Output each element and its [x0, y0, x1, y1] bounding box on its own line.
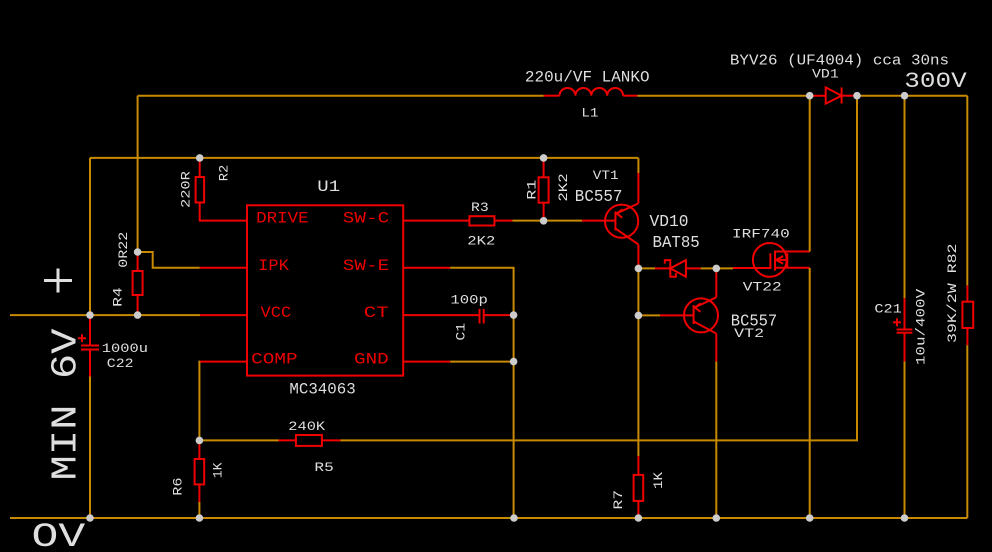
- svg-text:10u/400V: 10u/400V: [914, 289, 929, 365]
- wire gate node to VT22 gate: [716, 267, 733, 269]
- wire feedback line to x=857 vertical: [340, 96, 857, 441]
- node R1 top on 6V line: [540, 154, 548, 162]
- node R4 bottom on VCC line: [134, 311, 142, 319]
- transistor VT1 BC557: [582, 173, 638, 268]
- diode VD10 BAT85: [655, 260, 701, 277]
- wire VT1 base node to base lead: [544, 220, 582, 222]
- wire top rail middle segment: [638, 95, 810, 97]
- svg-text:SW-C: SW-C: [343, 210, 389, 228]
- svg-text:2K2: 2K2: [467, 234, 495, 249]
- svg-text:1000u: 1000u: [102, 341, 148, 356]
- wire VT2 base lead orange: [638, 314, 660, 316]
- svg-text:VT22: VT22: [743, 280, 782, 295]
- resistor R6: [195, 440, 205, 502]
- node R4 top / IPK: [134, 248, 142, 256]
- resistor R5: [279, 435, 341, 446]
- svg-text:BAT85: BAT85: [653, 234, 700, 253]
- wire feedback line y=440.4: [199, 439, 278, 441]
- wire top rail right segment: [857, 95, 967, 97]
- capacitor C1 with CT pin stub: [403, 309, 513, 324]
- capacitor C22: [78, 315, 99, 376]
- resistor R3 with SW-C pin stub: [403, 216, 512, 225]
- wire VT2 collector down to 0V rail: [715, 362, 717, 518]
- node ground vertical on 0V rail: [510, 514, 518, 522]
- svg-text:SW-E: SW-E: [343, 257, 389, 275]
- node R6 bottom on 0V rail: [196, 514, 204, 522]
- pin SW-E stub: [403, 267, 450, 269]
- svg-text:2K2: 2K2: [556, 173, 571, 201]
- node R5/R6/COMP: [196, 437, 204, 445]
- wire C21 top to rail: [904, 96, 906, 298]
- wire R82 bottom to 0V rail corner: [966, 345, 968, 518]
- svg-text:MIN 6V: MIN 6V: [46, 328, 87, 480]
- svg-text:MC34063: MC34063: [289, 381, 355, 399]
- svg-text:VD10: VD10: [650, 213, 689, 232]
- node C1 right on ground vertical: [510, 311, 518, 319]
- svg-text:U1: U1: [317, 178, 340, 196]
- node VT1 collector / VD10 anode: [635, 265, 643, 273]
- svg-text:IRF740: IRF740: [732, 227, 790, 242]
- node VT2 collector on 0V rail: [713, 514, 721, 522]
- node C21 top on top rail: [901, 92, 909, 100]
- svg-text:VT1: VT1: [593, 168, 619, 183]
- wire GND net to ground vertical: [450, 361, 513, 363]
- node C22 bottom on 0V rail: [86, 514, 94, 522]
- svg-text:100p: 100p: [450, 293, 488, 308]
- wire R82 top to rail corner: [966, 96, 968, 286]
- svg-text:BC557: BC557: [575, 188, 623, 207]
- svg-text:0R22: 0R22: [116, 232, 131, 268]
- wire VT1 collector to VT2 base node: [637, 268, 639, 315]
- svg-text:GND: GND: [354, 351, 389, 369]
- pin VCC stub: [200, 314, 247, 316]
- wire SW-E net to ground vertical: [450, 268, 513, 518]
- svg-text:BYV26 (UF4004) cca 30ns: BYV26 (UF4004) cca 30ns: [730, 53, 949, 70]
- node GND pin on ground vertical: [510, 358, 518, 366]
- wire VD10 cathode to gate node: [701, 267, 717, 269]
- wire COMP net vertical: [198, 362, 201, 441]
- svg-text:R7: R7: [611, 490, 626, 510]
- svg-text:R1: R1: [524, 179, 539, 199]
- wire vertical x=137.6 from top rail to IPK node: [137, 96, 139, 252]
- svg-text:R3: R3: [471, 200, 489, 215]
- wire 6V supply line y=157.9: [90, 157, 638, 159]
- wire VT22 source down to 0V rail: [809, 268, 811, 518]
- svg-text:220u/VF LANKO: 220u/VF LANKO: [525, 69, 650, 87]
- svg-text:220R: 220R: [178, 171, 193, 208]
- wire VCC line y=315.1 from left terminal: [10, 314, 200, 316]
- capacitor C21: [893, 298, 912, 361]
- node C21 bottom on 0V rail: [901, 514, 909, 522]
- node C22 top on VCC line: [86, 311, 94, 319]
- wire R6 bottom to 0V rail: [198, 502, 200, 518]
- resistor R1: [539, 158, 549, 221]
- svg-text:C22: C22: [107, 356, 134, 371]
- resistor R2: [196, 158, 247, 221]
- wire vertical x=90 (6V line to VCC line): [89, 158, 91, 315]
- svg-text:1K: 1K: [651, 472, 666, 489]
- node VT2 base: [635, 312, 643, 320]
- wire SW-C net to VT1 base node: [512, 220, 543, 222]
- svg-text:C21: C21: [874, 302, 902, 317]
- inductor L1: [544, 88, 638, 96]
- svg-text:R5: R5: [314, 460, 333, 475]
- svg-text:240K: 240K: [288, 419, 325, 434]
- svg-text:COMP: COMP: [251, 351, 298, 369]
- pin GND stub: [403, 361, 450, 363]
- pin COMP stub: [200, 361, 247, 363]
- label + terminal: [44, 269, 72, 293]
- wire top rail left segment (300V primary, y=95.7): [138, 95, 544, 97]
- svg-text:R4: R4: [111, 287, 126, 307]
- op-amp U1 MC34063 box: [247, 205, 403, 375]
- node R7 bottom on 0V rail: [635, 514, 643, 522]
- resistor R7: [634, 456, 644, 518]
- node VD1 anode on top rail: [806, 92, 814, 100]
- wire C22 bottom to 0V rail: [89, 377, 91, 519]
- node R1 bottom / R3 / VT1 base: [540, 217, 548, 225]
- wire VT1 emitter vertical (orange part): [637, 158, 639, 173]
- svg-text:CT: CT: [364, 304, 389, 322]
- svg-text:R6: R6: [170, 478, 185, 496]
- node R2 top on 6V line: [196, 154, 204, 162]
- svg-text:R2: R2: [217, 165, 232, 182]
- wire VD10 anode lead orange: [638, 267, 655, 269]
- transistor VT2 BC557: [660, 268, 718, 361]
- node VT22 source on 0V rail: [806, 514, 814, 522]
- wire C21 bottom to 0V rail: [904, 362, 906, 519]
- svg-text:1K: 1K: [210, 462, 225, 478]
- svg-text:IPK: IPK: [258, 257, 289, 275]
- wire VT22 drain up to top rail: [809, 96, 811, 252]
- svg-text:VT2: VT2: [734, 326, 764, 341]
- svg-text:DRIVE: DRIVE: [256, 210, 309, 228]
- wire IPK jog from R4 top to IPK pin: [138, 252, 200, 268]
- node VD10 cathode / VT2 emitter / gate: [713, 265, 721, 273]
- diode VD1: [810, 87, 857, 103]
- pin IPK stub: [200, 267, 247, 269]
- svg-text:39K/2W R82: 39K/2W R82: [945, 244, 960, 344]
- wire 0V bottom rail: [10, 517, 967, 519]
- wire VT2 base node down to R7: [637, 315, 639, 456]
- svg-text:L1: L1: [581, 105, 598, 120]
- svg-text:OV: OV: [32, 518, 86, 552]
- resistor R4: [133, 252, 143, 315]
- svg-text:300V: 300V: [904, 69, 967, 94]
- transistor VT22 IRF740 mosfet: [733, 243, 810, 277]
- resistor R82: [962, 285, 973, 345]
- node VD1 cathode on top rail: [853, 92, 861, 100]
- svg-text:VCC: VCC: [261, 304, 292, 322]
- svg-text:C1: C1: [453, 323, 468, 341]
